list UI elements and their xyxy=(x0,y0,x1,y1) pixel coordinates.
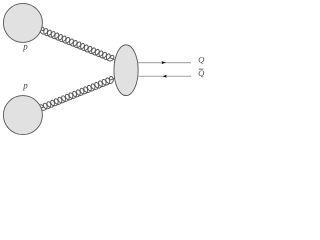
svg-text:p: p xyxy=(22,41,28,51)
proton blob bottom xyxy=(3,96,42,135)
arrow on Qbar line (points left) xyxy=(163,75,167,78)
svg-text:p: p xyxy=(22,80,28,90)
overline of Qbar xyxy=(199,68,204,70)
hard-process ellipse xyxy=(114,45,138,96)
gluon g1 (top, from upper proton blob to hard-process ellipse) xyxy=(40,27,114,61)
arrow on Q line (points right) xyxy=(162,61,166,64)
proton blob top xyxy=(3,3,42,42)
quark line Qbar (bottom) xyxy=(138,75,191,77)
quark line Q (top) xyxy=(138,62,191,64)
svg-text:Q: Q xyxy=(198,54,205,64)
gluon g2 (bottom, from lower proton blob to hard-process ellipse) xyxy=(40,77,115,111)
